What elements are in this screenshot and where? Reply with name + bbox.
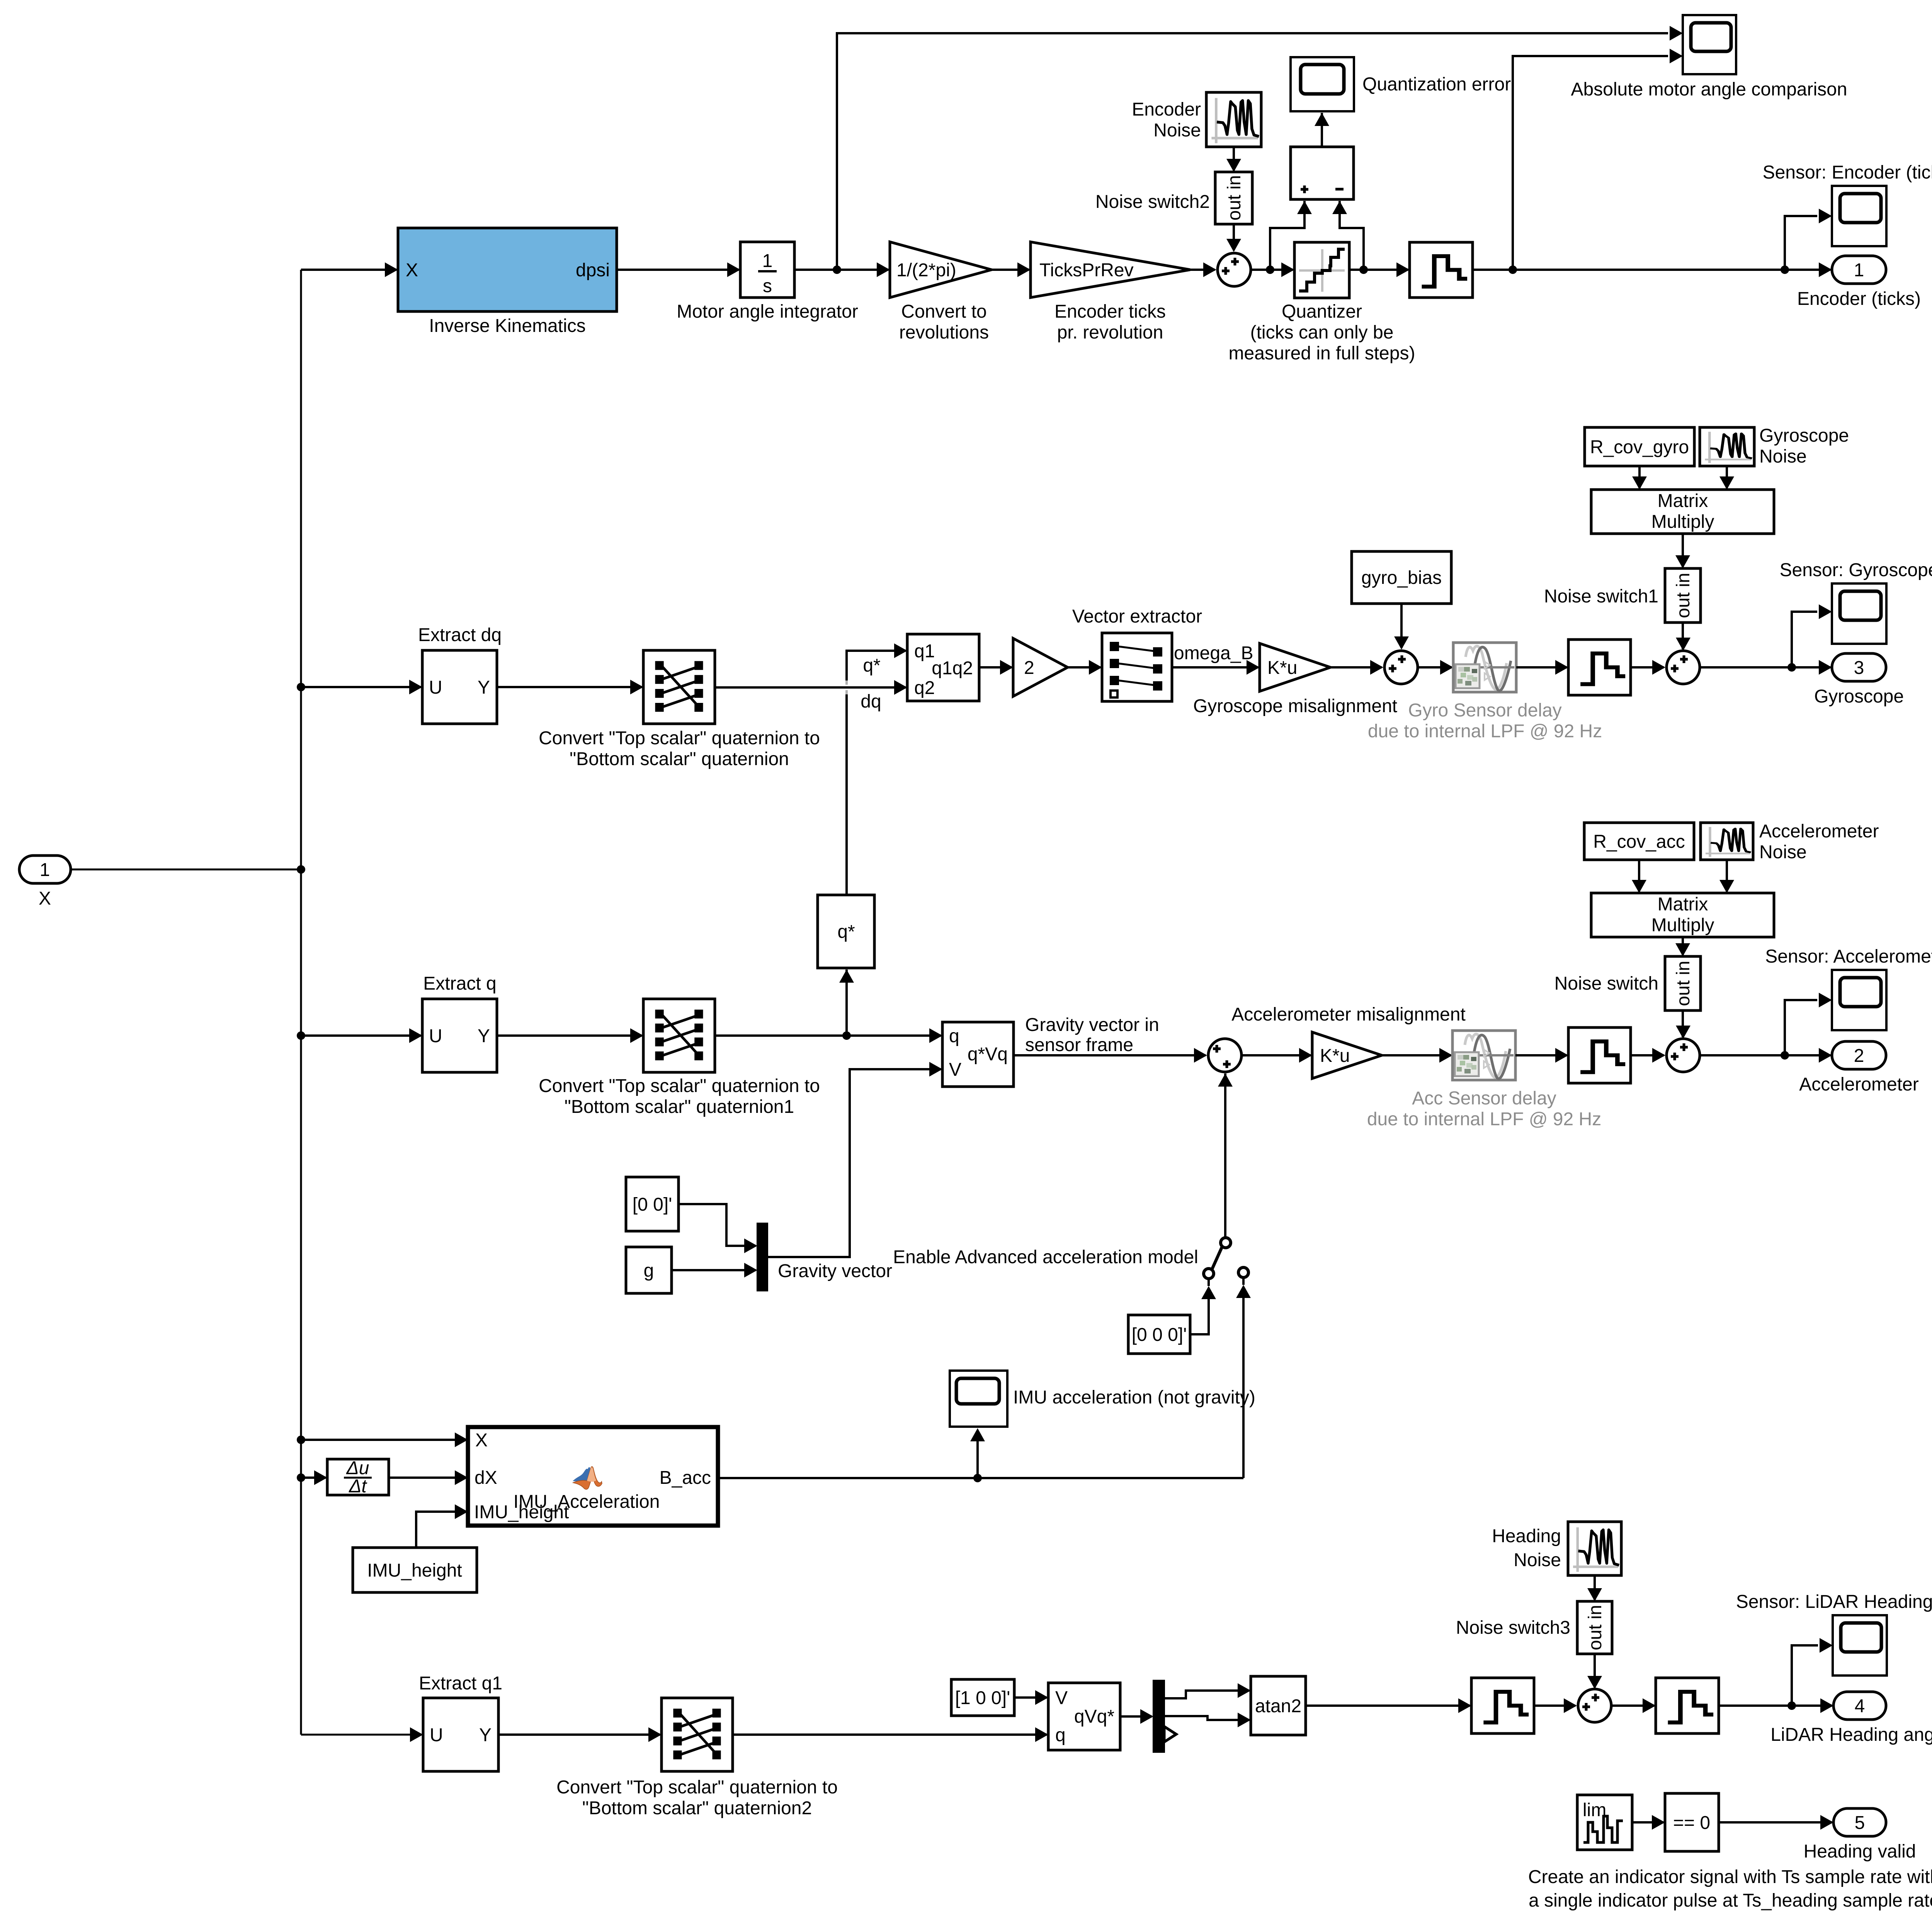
switch Noise switch2 [1095, 172, 1252, 224]
wire hold to sum6 [1534, 1698, 1577, 1713]
switch Noise switch3 [1456, 1601, 1612, 1654]
svg-text:Extract q: Extract q [423, 973, 496, 994]
wire sum6 to hold2 [1611, 1698, 1656, 1713]
wire acc delay to hold [1515, 1048, 1568, 1063]
manual switch Enable Advanced acceleration model [1204, 1238, 1248, 1279]
wire gain to TicksPrRev [992, 262, 1031, 277]
wire [0 0]' to gravity mux [679, 1204, 757, 1253]
svg-text:atan2: atan2 [1255, 1696, 1301, 1716]
wire q* conjugate up to q1 input with hop over dq wire [847, 643, 907, 895]
block Vector extractor [1072, 606, 1202, 701]
scope IMU acceleration [950, 1371, 1255, 1427]
outport 1 Encoder (ticks) [1797, 256, 1921, 309]
outport 5 Heading valid [1804, 1808, 1916, 1862]
svg-text:V: V [949, 1060, 961, 1080]
wire selector1 to q port of qVq with branch to conjugate [715, 1028, 942, 1043]
svg-text:[0 0]': [0 0]' [633, 1194, 672, 1215]
inport 1 X oval [19, 856, 71, 909]
svg-text:Accelerometer: Accelerometer [1759, 821, 1879, 842]
matlab function IMU_Acceleration [468, 1427, 718, 1526]
svg-text:Extract dq: Extract dq [418, 625, 502, 645]
svg-text:Noise: Noise [1514, 1550, 1561, 1570]
wire q1q2 to gain 2 [979, 660, 1013, 675]
block qVq* rotate back [1048, 1683, 1120, 1750]
scope Quantization error [1291, 57, 1511, 111]
quantizer block [1229, 242, 1415, 364]
sum2 [1667, 1039, 1700, 1072]
svg-text:Gyro Sensor delay: Gyro Sensor delay [1408, 700, 1562, 721]
svg-text:dX: dX [474, 1468, 497, 1488]
svg-text:Absolute motor angle compariso: Absolute motor angle comparison [1571, 79, 1847, 100]
svg-text:2: 2 [1854, 1046, 1864, 1066]
subsystem Extract dq [418, 625, 502, 724]
wire trunk to IMU function X input [297, 1432, 468, 1447]
wire demux out1 to atan2 [1164, 1683, 1251, 1698]
gain Convert to revolutions [890, 242, 992, 343]
svg-text:Y: Y [478, 1026, 490, 1046]
wire sum4 to outport 3 with branch [1700, 660, 1832, 675]
wire qVq to sum5 with gravity label [1014, 1015, 1207, 1063]
wire Noise switch2 to sum1 [1226, 224, 1241, 252]
sum4 [1667, 651, 1700, 684]
wire IMU_height to IMU function [416, 1504, 468, 1548]
block Matrix Multiply acc [1591, 893, 1774, 937]
scope Sensor: Encoder (ticks) [1763, 162, 1932, 246]
svg-text:Encoder: Encoder [1132, 99, 1201, 120]
svg-text:Gyroscope misalignment: Gyroscope misalignment [1193, 696, 1397, 716]
wire matrix multiply to noise switch1 [1675, 534, 1690, 568]
scope Absolute motor angle comparison [1571, 15, 1847, 100]
svg-text:"Bottom scalar" quaternion1: "Bottom scalar" quaternion1 [565, 1097, 794, 1117]
wire trunk to Extract q [297, 1028, 422, 1043]
wire branch B up to subtract block [1270, 201, 1312, 270]
hold block row3 [1568, 1027, 1631, 1083]
svg-text:IMU_height: IMU_height [367, 1560, 462, 1581]
svg-text:1: 1 [1854, 260, 1864, 281]
wire Extract q1 to convert selector2 [498, 1727, 662, 1742]
svg-text:out in: out in [1224, 175, 1245, 220]
svg-text:Multiply: Multiply [1651, 915, 1714, 936]
hold block row1 [1410, 242, 1473, 298]
svg-text:R_cov_acc: R_cov_acc [1593, 832, 1685, 852]
block q*Vq rotate [942, 1022, 1014, 1087]
wire hold to sum4 [1631, 660, 1665, 675]
wire B_acc up into manual switch right throw [1236, 1278, 1251, 1478]
wire Extract dq to convert selector [497, 680, 643, 694]
wire X oval to trunk [71, 865, 305, 874]
svg-text:Convert "Top scalar" quaternio: Convert "Top scalar" quaternion to [539, 728, 820, 748]
constant g [626, 1247, 672, 1293]
svg-text:X: X [39, 888, 51, 909]
svg-text:X: X [406, 260, 418, 281]
demux heading [1153, 1681, 1176, 1752]
wire Extract q to convert selector1 [497, 1028, 643, 1043]
svg-text:1: 1 [762, 251, 773, 271]
svg-text:4: 4 [1855, 1696, 1865, 1716]
wire hold to outport 1 with branch nodes D and E [1473, 262, 1832, 277]
svg-text:q*: q* [837, 922, 855, 942]
svg-text:q*: q* [863, 655, 880, 676]
selector Convert Top scalar quaternion [539, 650, 820, 769]
wire quantizer to hold with branch node C [1349, 262, 1410, 277]
wire R_cov_gyro to matrix multiply [1632, 466, 1647, 490]
svg-text:out in: out in [1585, 1605, 1605, 1650]
sum6 [1578, 1689, 1611, 1722]
sum5 [1208, 1039, 1242, 1072]
source Gyroscope Noise [1700, 425, 1849, 467]
sum3 [1384, 651, 1418, 684]
svg-text:V: V [1055, 1688, 1068, 1708]
svg-text:TicksPrRev: TicksPrRev [1039, 260, 1134, 281]
wire B_acc branch up into IMU acceleration scope [970, 1428, 985, 1478]
svg-text:B_acc: B_acc [660, 1468, 711, 1488]
svg-text:IMU_Acceleration: IMU_Acceleration [514, 1492, 660, 1512]
wire trunk to Extract dq [297, 680, 422, 694]
subsystem Extract q1 [419, 1673, 502, 1771]
svg-text:U: U [430, 1725, 443, 1745]
wire derivative to IMU dX input [389, 1470, 468, 1485]
wire g to gravity mux [672, 1263, 757, 1277]
wire R_cov_acc to matrix multiply acc [1632, 860, 1646, 893]
wire sum2 to outport 2 with branch [1700, 1048, 1832, 1063]
svg-text:omega_B: omega_B [1174, 643, 1253, 663]
svg-text:Gyroscope: Gyroscope [1759, 425, 1849, 446]
wire noise switch to sum2 [1676, 1010, 1690, 1039]
subsystem Extract q [422, 973, 497, 1072]
svg-text:Accelerometer misalignment: Accelerometer misalignment [1231, 1004, 1466, 1025]
annotation Enable Advanced acceleration model [893, 1247, 1198, 1267]
svg-text:Noise switch: Noise switch [1554, 973, 1658, 994]
svg-text:q1q2: q1q2 [932, 658, 973, 679]
svg-text:== 0: == 0 [1673, 1813, 1710, 1833]
svg-text:1: 1 [40, 860, 50, 880]
svg-text:Quantizer: Quantizer [1282, 301, 1362, 322]
svg-text:s: s [763, 276, 772, 296]
wire vector extractor to K*u with omega_B label [1172, 643, 1260, 675]
svg-text:"Bottom scalar" quaternion2: "Bottom scalar" quaternion2 [582, 1798, 812, 1818]
wire integrator to gain with branch node A [794, 262, 890, 277]
wire [1 0 0]' to V port of qVq* [1014, 1690, 1048, 1705]
svg-text:Extract q1: Extract q1 [419, 1673, 502, 1694]
gain K*u Gyroscope misalignment [1193, 643, 1397, 716]
svg-text:Gravity vector in: Gravity vector in [1025, 1015, 1159, 1035]
wire branch up into q* conjugate block [839, 970, 854, 1036]
wire subtract to quantization error scope [1315, 113, 1329, 147]
svg-text:Sensor: Gyroscope: Sensor: Gyroscope [1780, 560, 1932, 580]
hold block heading post [1656, 1678, 1719, 1733]
svg-text:Inverse Kinematics: Inverse Kinematics [429, 316, 586, 336]
constant [1 0 0]' [951, 1679, 1014, 1716]
svg-text:dpsi: dpsi [576, 260, 610, 281]
svg-text:Create an indicator signal wit: Create an indicator signal with Ts sampl… [1528, 1867, 1932, 1887]
svg-text:Matrix: Matrix [1658, 491, 1708, 511]
svg-text:Gyroscope: Gyroscope [1814, 686, 1904, 707]
svg-text:R_cov_gyro: R_cov_gyro [1590, 437, 1689, 458]
svg-text:Sensor: Encoder (ticks): Sensor: Encoder (ticks) [1763, 162, 1932, 183]
outport 4 LiDAR Heading angle [1770, 1692, 1932, 1745]
block q* conjugate [818, 895, 874, 968]
source Accelerometer Noise [1701, 821, 1879, 862]
wire branch D up to comparison scope input 2 [1513, 49, 1683, 270]
svg-text:Noise switch3: Noise switch3 [1456, 1618, 1570, 1638]
constant [0 0 0]' [1128, 1315, 1190, 1354]
block Acc Sensor delay grayed [1367, 1031, 1601, 1130]
svg-text:out in: out in [1673, 573, 1694, 618]
wire matrix multiply acc to noise switch [1675, 937, 1690, 956]
svg-text:IMU acceleration (not gravity): IMU acceleration (not gravity) [1013, 1387, 1255, 1408]
sum1 [1218, 253, 1251, 286]
svg-text:qVq*: qVq* [1074, 1706, 1114, 1727]
subsystem Inverse Kinematics [398, 228, 617, 336]
svg-text:Gravity vector: Gravity vector [778, 1261, 892, 1281]
wire branch A up to comparison scope [837, 26, 1683, 270]
wire sum5 to K*u acc [1242, 1048, 1312, 1063]
svg-text:Y: Y [479, 1725, 492, 1745]
hold block heading pre [1471, 1678, 1534, 1733]
svg-text:Enable Advanced acceleration m: Enable Advanced acceleration model [893, 1247, 1198, 1267]
source Heading Noise [1492, 1522, 1621, 1575]
wire branch up to lidar scope [1792, 1638, 1833, 1706]
svg-text:q2: q2 [914, 678, 935, 698]
svg-text:due to internal LPF @ 92 Hz: due to internal LPF @ 92 Hz [1367, 1109, 1601, 1130]
block atan2 [1251, 1676, 1306, 1735]
wire K*u acc to acc delay [1382, 1048, 1452, 1063]
integrator 1/s Motor angle integrator [677, 242, 858, 322]
svg-text:Noise switch1: Noise switch1 [1544, 586, 1658, 607]
wire B_acc output to manual switch with scope branch [718, 1474, 1243, 1482]
svg-text:a single indicator pulse at Ts: a single indicator pulse at Ts_heading s… [1529, 1890, 1932, 1911]
wire Accelerometer Noise to matrix multiply acc [1719, 860, 1734, 893]
svg-text:K*u: K*u [1320, 1046, 1350, 1066]
svg-text:U: U [429, 1026, 442, 1046]
mux Gravity vector [757, 1223, 892, 1291]
outport 3 Gyroscope [1814, 653, 1904, 707]
svg-text:Motor angle integrator: Motor angle integrator [677, 301, 858, 322]
svg-text:Encoder ticks: Encoder ticks [1054, 301, 1166, 322]
svg-text:Encoder (ticks): Encoder (ticks) [1797, 289, 1921, 309]
constant R_cov_gyro [1585, 427, 1694, 466]
svg-text:Sensor: Accelerometer: Sensor: Accelerometer [1765, 946, 1932, 967]
wire trunk vertical from X input [300, 270, 302, 1735]
svg-text:Noise: Noise [1153, 120, 1201, 141]
wire manual switch to sum5 bottom [1218, 1073, 1233, 1237]
svg-text:q: q [1055, 1725, 1066, 1745]
block Matrix Multiply gyro [1591, 490, 1774, 534]
wire sum3 to gyro delay [1418, 660, 1453, 675]
block Gyro Sensor delay grayed [1368, 643, 1602, 742]
svg-text:Matrix: Matrix [1658, 894, 1708, 915]
wire sum1 to quantizer with branch node B [1251, 262, 1294, 277]
wire Heading Noise to noise switch3 [1587, 1575, 1602, 1601]
source lim indicator [1577, 1795, 1632, 1850]
svg-text:K*u: K*u [1267, 658, 1297, 678]
wire trunk to Extract q1 [301, 1727, 423, 1742]
wire gyro_bias to sum3 [1394, 604, 1409, 650]
gain K*u Accelerometer misalignment [1231, 1004, 1466, 1078]
wire branch up to acc scope [1785, 993, 1832, 1055]
wire noise switch1 to sum4 [1676, 623, 1690, 651]
wire qVq* to demux [1120, 1709, 1153, 1724]
svg-text:LiDAR Heading angle: LiDAR Heading angle [1770, 1725, 1932, 1745]
svg-text:dq: dq [861, 691, 881, 712]
block compare to zero == 0 [1665, 1793, 1719, 1851]
switch Noise switch1 [1544, 568, 1701, 623]
svg-text:Accelerometer: Accelerometer [1799, 1074, 1918, 1095]
svg-text:Convert "Top scalar" quaternio: Convert "Top scalar" quaternion to [539, 1076, 820, 1096]
wire branch up to gyro scope [1792, 604, 1832, 667]
wire branch E up to encoder scope [1785, 209, 1832, 270]
svg-text:(ticks can only be: (ticks can only be [1250, 322, 1394, 343]
svg-text:[1 0 0]': [1 0 0]' [955, 1688, 1010, 1708]
derivative du/dt [327, 1458, 389, 1497]
wire hold2 to outport 4 with branch [1719, 1698, 1833, 1713]
constant R_cov_acc [1584, 823, 1694, 860]
scope Sensor: LiDAR Heading angle [1736, 1592, 1932, 1676]
svg-text:gyro_bias: gyro_bias [1361, 568, 1442, 588]
svg-text:3: 3 [1854, 658, 1864, 678]
wire ==0 to outport 5 [1719, 1815, 1833, 1830]
scope Sensor: Gyroscope [1780, 560, 1932, 644]
svg-text:Multiply: Multiply [1651, 512, 1714, 532]
constant gyro_bias [1352, 551, 1451, 604]
outport 2 Accelerometer [1799, 1041, 1918, 1095]
svg-text:out in: out in [1673, 961, 1694, 1006]
wire gyro delay to hold [1516, 660, 1568, 675]
wire lim to compare ==0 [1632, 1815, 1665, 1830]
svg-text:g: g [644, 1260, 654, 1281]
wire [0 0 0]' up into manual switch left throw [1190, 1279, 1216, 1334]
svg-text:Convert "Top scalar" quaternio: Convert "Top scalar" quaternion to [556, 1777, 838, 1798]
svg-text:q*Vq: q*Vq [968, 1044, 1008, 1065]
svg-text:Convert to: Convert to [901, 301, 986, 322]
svg-text:U: U [429, 677, 442, 698]
svg-text:Acc Sensor delay: Acc Sensor delay [1412, 1088, 1556, 1109]
svg-text:due to internal LPF @ 92 Hz: due to internal LPF @ 92 Hz [1368, 721, 1602, 742]
svg-text:Y: Y [478, 677, 490, 698]
wire Gyroscope Noise to matrix multiply [1719, 466, 1734, 490]
svg-text:Δt: Δt [349, 1476, 367, 1497]
svg-text:sensor frame: sensor frame [1025, 1035, 1133, 1055]
wire K*u to sum3 [1330, 660, 1383, 675]
svg-text:X: X [475, 1430, 488, 1451]
svg-text:5: 5 [1855, 1813, 1865, 1833]
gain TicksPrRev Encoder ticks pr. revolution [1031, 242, 1190, 343]
svg-text:revolutions: revolutions [899, 322, 989, 343]
svg-text:Noise switch2: Noise switch2 [1095, 192, 1210, 212]
svg-text:Noise: Noise [1759, 842, 1807, 862]
svg-text:"Bottom scalar" quaternion: "Bottom scalar" quaternion [570, 749, 789, 769]
scope Sensor: Accelerometer [1765, 946, 1932, 1030]
svg-text:pr. revolution: pr. revolution [1057, 322, 1163, 343]
svg-text:measured in full steps): measured in full steps) [1229, 343, 1415, 364]
wire trunk to derivative [297, 1470, 327, 1485]
subtract block plus minus [1291, 147, 1354, 199]
wire demux out2 to atan2 [1164, 1713, 1251, 1727]
wire branch C up to subtract block minus input [1332, 201, 1364, 270]
switch Noise switch [1554, 956, 1701, 1010]
svg-text:Quantization error: Quantization error [1362, 74, 1511, 95]
wire gain 2 to vector extractor [1068, 660, 1102, 675]
annotation indicator signal note [1528, 1867, 1932, 1911]
wire Encoder Noise to Noise switch2 [1226, 147, 1241, 172]
wire gravity mux up to V port of qVq [767, 1062, 942, 1257]
svg-text:Sensor: LiDAR Heading angle: Sensor: LiDAR Heading angle [1736, 1592, 1932, 1612]
svg-text:2: 2 [1024, 658, 1034, 678]
wire IK to integrator [617, 262, 740, 277]
wire hold to sum2 [1631, 1048, 1665, 1063]
svg-text:Heading valid: Heading valid [1804, 1841, 1916, 1862]
svg-text:q: q [949, 1026, 959, 1046]
wire selector to q1q2 block q2 input with hop over q* line [715, 655, 907, 712]
svg-text:Noise: Noise [1759, 446, 1807, 467]
svg-text:Vector extractor: Vector extractor [1072, 606, 1202, 627]
selector Convert Top scalar quaternion2 [556, 1698, 838, 1818]
wire TicksPrRev to sum1 [1190, 262, 1216, 277]
source Encoder Noise [1132, 92, 1261, 147]
svg-text:[0 0 0]': [0 0 0]' [1132, 1325, 1187, 1345]
wire trunk to Inverse Kinematics X [301, 262, 398, 277]
wire noise switch3 to sum6 [1587, 1654, 1602, 1689]
svg-text:Δu: Δu [346, 1458, 369, 1478]
wire selector2 to q port of qVq* [733, 1727, 1048, 1742]
hold block row2 [1568, 640, 1631, 695]
block q1q2 quaternion multiply [907, 634, 979, 701]
svg-text:1/(2*pi): 1/(2*pi) [896, 260, 956, 281]
wire atan2 to hold heading [1306, 1698, 1471, 1713]
svg-text:Heading: Heading [1492, 1526, 1561, 1546]
gain 2 [1013, 638, 1068, 696]
selector Convert Top scalar quaternion1 [539, 999, 820, 1117]
constant [0 0]' [626, 1177, 679, 1231]
constant IMU_height [353, 1548, 477, 1592]
